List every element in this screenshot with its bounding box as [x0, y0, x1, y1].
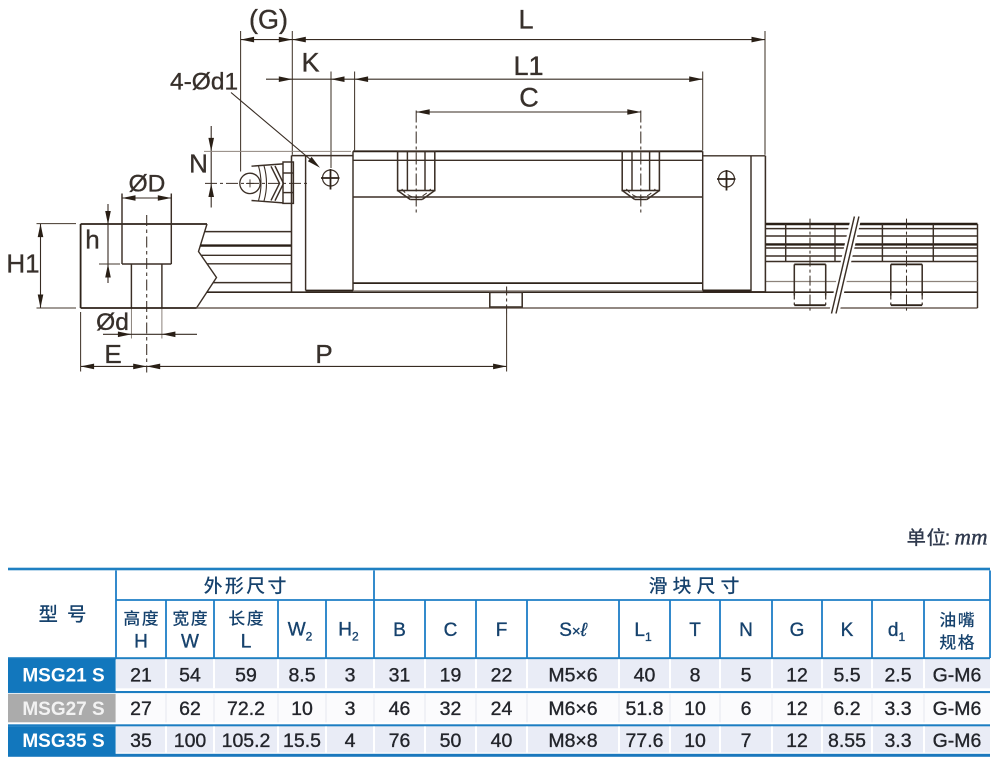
svg-text:3: 3 [345, 665, 356, 687]
svg-text:72.2: 72.2 [227, 698, 265, 720]
svg-text:40: 40 [491, 730, 513, 752]
svg-text:mm: mm [954, 525, 987, 550]
svg-text:31: 31 [389, 665, 411, 687]
svg-text:100: 100 [174, 730, 207, 752]
svg-text:6.2: 6.2 [833, 698, 860, 720]
svg-text:3.3: 3.3 [884, 730, 911, 752]
svg-text:22: 22 [491, 665, 513, 687]
svg-text:MSG35 S: MSG35 S [22, 731, 104, 752]
svg-text:3.3: 3.3 [884, 698, 911, 720]
svg-text:P: P [315, 339, 332, 369]
svg-text:59: 59 [235, 665, 257, 687]
svg-text:M6×6: M6×6 [548, 698, 597, 720]
svg-text:8: 8 [690, 665, 701, 687]
svg-text:8.55: 8.55 [828, 730, 866, 752]
svg-text:50: 50 [440, 730, 462, 752]
svg-text:K: K [301, 48, 319, 78]
svg-text:B: B [393, 620, 406, 641]
svg-text:H: H [134, 632, 148, 653]
svg-text:F: F [496, 620, 508, 641]
svg-text:E: E [104, 339, 121, 369]
svg-text:32: 32 [440, 698, 462, 720]
svg-text:H1: H1 [6, 249, 39, 279]
svg-text:27: 27 [130, 698, 152, 720]
svg-text:8.5: 8.5 [288, 665, 315, 687]
svg-text:2.5: 2.5 [884, 665, 911, 687]
svg-text:62: 62 [179, 698, 201, 720]
svg-text:76: 76 [389, 730, 411, 752]
svg-text:10: 10 [684, 730, 706, 752]
svg-text::: : [945, 528, 951, 550]
svg-text:G: G [790, 620, 805, 641]
svg-text:N: N [189, 149, 208, 179]
svg-text:105.2: 105.2 [222, 730, 271, 752]
svg-text:MSG21 S: MSG21 S [22, 666, 104, 687]
svg-text:12: 12 [786, 730, 808, 752]
svg-text:L1: L1 [513, 51, 543, 81]
svg-text:Ød: Ød [96, 309, 129, 336]
svg-text:T: T [689, 620, 701, 641]
svg-text:M5×6: M5×6 [548, 665, 597, 687]
svg-text:L: L [241, 632, 252, 653]
svg-text:40: 40 [634, 665, 656, 687]
svg-text:10: 10 [291, 698, 313, 720]
svg-text:C: C [519, 83, 539, 113]
svg-text:G-M6: G-M6 [933, 730, 982, 752]
svg-text:5.5: 5.5 [833, 665, 860, 687]
svg-text:46: 46 [389, 698, 411, 720]
svg-text:12: 12 [786, 698, 808, 720]
svg-text:7: 7 [741, 730, 752, 752]
svg-text:51.8: 51.8 [626, 698, 664, 720]
svg-text:19: 19 [440, 665, 462, 687]
svg-text:12: 12 [786, 665, 808, 687]
svg-text:21: 21 [130, 665, 152, 687]
svg-text:4-Ød1: 4-Ød1 [170, 69, 238, 96]
svg-text:77.6: 77.6 [626, 730, 664, 752]
svg-text:(G): (G) [249, 5, 288, 35]
svg-text:ØD: ØD [129, 171, 166, 198]
svg-text:K: K [841, 620, 854, 641]
svg-text:15.5: 15.5 [283, 730, 321, 752]
svg-text:35: 35 [130, 730, 152, 752]
svg-text:L: L [518, 5, 533, 35]
svg-text:6: 6 [741, 698, 752, 720]
svg-text:G-M6: G-M6 [933, 665, 982, 687]
svg-text:N: N [739, 620, 753, 641]
svg-text:M8×8: M8×8 [548, 730, 597, 752]
svg-text:h: h [85, 225, 99, 255]
svg-text:G-M6: G-M6 [933, 698, 982, 720]
svg-text:4: 4 [345, 730, 356, 752]
svg-text:C: C [444, 620, 458, 641]
svg-text:24: 24 [491, 698, 513, 720]
svg-text:MSG27 S: MSG27 S [22, 699, 104, 720]
svg-text:5: 5 [741, 665, 752, 687]
svg-text:10: 10 [684, 698, 706, 720]
svg-text:W: W [181, 632, 199, 653]
svg-text:3: 3 [345, 698, 356, 720]
svg-text:S×ℓ: S×ℓ [559, 620, 587, 641]
svg-text:54: 54 [179, 665, 201, 687]
